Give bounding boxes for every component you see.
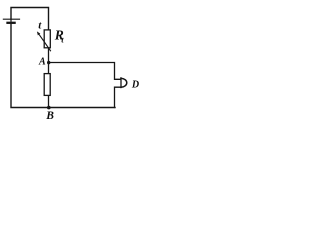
svg-text:D: D bbox=[131, 80, 139, 91]
svg-text:t: t bbox=[61, 34, 64, 44]
svg-text:t: t bbox=[38, 19, 42, 31]
svg-text:B: B bbox=[45, 110, 54, 122]
svg-text:A: A bbox=[38, 57, 46, 68]
